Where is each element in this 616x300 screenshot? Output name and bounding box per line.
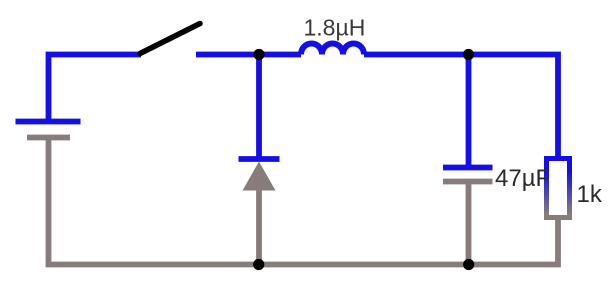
svg-text:1k: 1k xyxy=(577,181,603,208)
svg-text:47µF: 47µF xyxy=(495,165,550,192)
svg-text:1.8µH: 1.8µH xyxy=(304,15,366,41)
